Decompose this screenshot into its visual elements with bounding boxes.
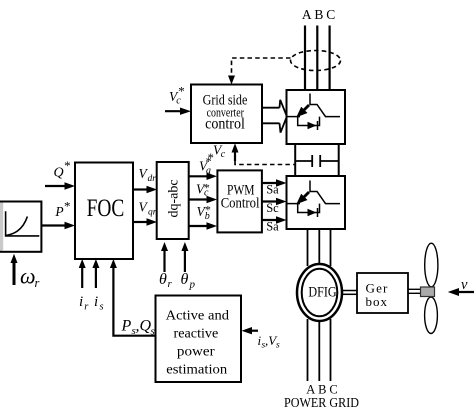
svg-text:B: B [314,7,323,22]
svg-text:*: * [64,158,71,173]
svg-text:Q: Q [54,166,64,181]
DFIG machine [297,264,342,321]
wire Vc sense (solid arrow up into control) [234,150,236,161]
svg-text:s: s [276,341,280,351]
wire i_s,V_s arrow into estimation [250,330,258,332]
turbine hub [421,287,435,297]
svg-text:dr: dr [148,174,157,184]
svg-text:c: c [221,149,226,160]
svg-text:B: B [318,382,326,396]
svg-text:Sa: Sa [266,220,279,234]
bus arrow control to grid converter [262,107,280,109]
svg-text:FOC: FOC [87,195,125,222]
svg-text:P: P [54,204,63,219]
svg-text:*: * [64,199,71,214]
dashed Vc sense wire from dc link [235,161,295,165]
svg-text:dq-abc: dq-abc [167,179,182,217]
svg-text:v: v [461,277,468,293]
block PWM Control [217,170,262,232]
wire Va* arrow dq-abc to PWM [189,175,209,177]
svg-text:control: control [205,116,245,133]
wire Sa arrow (top) PWM to converter [262,182,278,184]
svg-text:qr: qr [148,208,157,218]
svg-text:i: i [94,294,98,310]
block FOC [75,163,133,260]
wire i_r arrow into FOC [81,268,83,289]
wire i_s arrow into FOC [95,268,97,289]
svg-text:C: C [329,382,337,396]
block speed curve (power reference lookup) [1,202,41,252]
svg-text:a: a [206,166,211,177]
wire phase C (top) [329,26,331,91]
wire phase B (top) [316,26,318,91]
turbine blade (lower) [425,297,438,333]
svg-text:b: b [205,211,210,222]
svg-text:box: box [366,294,389,309]
wire Vb* arrow dq-abc to PWM [189,225,209,227]
wire theta_r arrow into dq-abc [163,251,165,273]
svg-text:C: C [326,7,335,22]
svg-text:*: * [178,84,185,99]
svg-text:power: power [177,345,215,360]
wire phase A (top) [304,26,306,91]
block grid-side converter [287,90,346,144]
dc link wires [294,144,296,176]
block dq-abc [157,162,189,239]
svg-text:A: A [302,7,312,22]
wire Ps,Qs feedback from estimation to FOC [113,268,155,336]
svg-text:Control: Control [221,196,260,212]
svg-text:c: c [204,188,209,199]
svg-text:i: i [79,294,83,310]
curve axes [6,211,40,236]
wire Vc* arrow dq-abc to PWM [189,198,209,200]
wind arrow v [456,291,474,293]
block rotor-side converter [287,176,346,229]
svg-text:ω: ω [20,264,36,289]
svg-text:DFIG: DFIG [308,284,336,300]
dc link capacitor [295,160,312,162]
svg-text:A: A [306,382,315,396]
svg-text:r: r [35,276,40,290]
wire wr arrow [13,263,16,285]
wire theta_p arrow into dq-abc [184,251,186,273]
measurement ellipse (dashed) [291,51,341,71]
stator wires DFIG to grid [307,319,309,381]
svg-text:p: p [189,279,196,291]
svg-text:s: s [100,302,104,313]
svg-text:Sa: Sa [266,183,279,197]
shaft gearbox to hub [408,288,421,290]
wire Q* arrow [45,185,67,187]
wire P* arrow [41,224,67,226]
wire Sc arrow PWM to converter [262,200,278,202]
dashed wire from ellipse to grid side control [232,58,291,76]
wire V_qr arrow FOC to dq-abc [133,221,149,223]
wire V_dr arrow FOC to dq-abc [133,188,149,190]
svg-text:s: s [151,326,155,338]
shaft DFIG to gearbox [342,290,357,292]
block active and reactive power estimation [156,296,242,383]
block grid side converter control [191,85,262,144]
svg-text:θ: θ [181,271,189,288]
svg-text:,Q: ,Q [136,318,152,335]
IGBT symbol (grid-side converter) [288,94,341,131]
svg-text:P: P [121,318,132,335]
svg-text:reactive: reactive [174,327,219,342]
turbine blade (upper) [425,243,438,287]
wire Vc* arrow into control [165,110,182,112]
svg-text:Active and: Active and [166,309,229,324]
svg-text:Sc: Sc [266,201,279,215]
rotor wires converter to DFIG [307,229,309,266]
svg-text:θ: θ [159,271,167,288]
svg-text:estimation: estimation [166,362,227,377]
curve [6,217,28,236]
wire Sa arrow (bottom) PWM to converter [262,219,278,221]
block Ger box [357,273,408,313]
svg-text:POWER GRID: POWER GRID [284,396,359,411]
svg-text:r: r [168,278,173,290]
IGBT symbol (rotor-side converter) [288,181,341,218]
